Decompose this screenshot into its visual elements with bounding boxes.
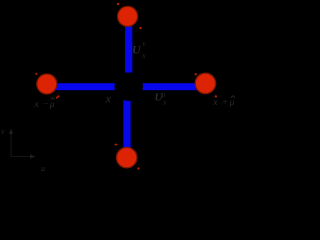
svg-text:μ: μ <box>162 90 166 98</box>
svg-text:−: − <box>43 100 49 110</box>
svg-text:x: x <box>141 51 146 60</box>
svg-text:μ: μ <box>49 100 55 110</box>
speck artifact near right circle <box>195 73 197 75</box>
svg-text:x: x <box>212 98 218 108</box>
speck artifact near left circle <box>57 95 59 97</box>
speck artifact near mu-hat left label <box>56 97 58 99</box>
node x-mu (left red circle) <box>37 74 57 94</box>
svg-text:μ: μ <box>40 164 45 171</box>
wire vertical link top (U_nu from x upward) <box>125 16 132 73</box>
speck artifact upper-left of left circle <box>35 73 37 75</box>
node x+nu (top red circle) <box>118 6 138 26</box>
wire horizontal link left (U_mu from x-mu to x) <box>47 83 115 90</box>
svg-text:x: x <box>105 93 112 105</box>
node x-nu (bottom red circle) <box>117 147 137 167</box>
node x+mu (right red circle) <box>195 73 215 93</box>
wire horizontal link right (U_mu from x to x+mu) <box>140 83 206 90</box>
svg-text:μ: μ <box>229 98 235 108</box>
speck artifact near top circle 2 <box>139 27 141 29</box>
axis mu (horizontal arrow, bottom-left) <box>11 156 33 158</box>
wire vertical link bottom (from x downward) <box>123 99 130 158</box>
speck artifact near top circle 1 <box>117 3 119 5</box>
speck artifact near bottom circle <box>137 167 139 169</box>
svg-text:ν: ν <box>1 127 5 136</box>
node x (center occluder disc, black) <box>115 73 143 101</box>
speck artifact upper-left of bottom circle <box>114 144 117 146</box>
axis nu (vertical arrow, bottom-left) <box>10 131 12 157</box>
svg-text:U: U <box>132 43 142 57</box>
speck artifact above x+mu label <box>215 95 217 97</box>
svg-text:x: x <box>34 100 40 110</box>
svg-text:+: + <box>222 98 228 108</box>
